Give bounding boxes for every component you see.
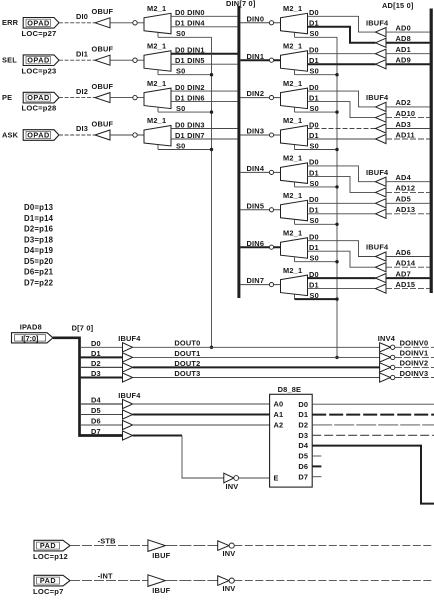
label S0 mux R3 xyxy=(310,141,319,150)
wire D4 to A0 xyxy=(133,403,270,405)
buffer OBUF ERR xyxy=(95,18,110,28)
wire AD0 to AD bus xyxy=(386,31,430,33)
svg-text:LOC=p27: LOC=p27 xyxy=(22,29,57,38)
svg-text:DI1: DI1 xyxy=(76,49,88,58)
net label AD11 xyxy=(396,130,415,139)
svg-text:M2_1: M2_1 xyxy=(283,154,302,163)
wire D4 bus to IBUF xyxy=(80,403,123,405)
buffer IBUF -INT xyxy=(148,575,166,587)
label M2_1 mux L1 xyxy=(147,41,166,50)
wire mux R5 D1 to IBUF xyxy=(308,213,376,215)
wire D6 to A2 xyxy=(133,424,270,426)
pin label D5 decoder xyxy=(298,452,308,461)
svg-text:DOINV2: DOINV2 xyxy=(400,359,429,368)
svg-text:D1: D1 xyxy=(309,206,319,215)
label D1 DIN7 xyxy=(175,131,205,140)
buffer IBUF AD9 xyxy=(376,60,387,69)
tag circle DIN2 xyxy=(269,96,273,100)
svg-text:-INT: -INT xyxy=(98,572,113,581)
net label DOINV0 xyxy=(400,339,429,348)
label D1 mux R6 xyxy=(309,243,319,252)
svg-text:IBUF4: IBUF4 xyxy=(366,18,389,27)
svg-text:D4: D4 xyxy=(91,396,102,405)
label D0 mux R2 xyxy=(309,83,319,92)
svg-text:D0 DIN2: D0 DIN2 xyxy=(175,83,205,92)
wire SEL pad to OBUF xyxy=(59,59,95,61)
net label DIN7 xyxy=(247,276,265,285)
svg-text:M2_1: M2_1 xyxy=(147,4,166,13)
svg-text:DIN4: DIN4 xyxy=(247,164,265,173)
buffer IBUF AD2 xyxy=(376,102,387,111)
wire mux R7 D1 to IBUF xyxy=(308,288,376,290)
net label DOUT3 xyxy=(174,369,200,378)
tag circle DIN3 xyxy=(269,133,273,137)
wire AD5 to AD bus xyxy=(386,202,430,204)
svg-text:D1=p14: D1=p14 xyxy=(24,214,54,223)
junction select right row 1 xyxy=(335,73,338,76)
junction select right row 3 xyxy=(335,148,338,151)
label OBUF ERR xyxy=(92,7,114,16)
svg-text:D0 DIN0: D0 DIN0 xyxy=(175,8,205,17)
wire D1 DIN7 to DIN bus xyxy=(171,138,238,140)
label S0 mux R2 xyxy=(310,104,319,113)
wire IBUF to INV -INT xyxy=(165,580,217,582)
junction select left on DOUT0 xyxy=(210,346,213,349)
wire AD8 to AD bus xyxy=(386,42,430,44)
label S0 mux L3 xyxy=(176,141,185,150)
bus DIN[7:0] vertical xyxy=(237,6,240,298)
wire AD11 to AD bus xyxy=(386,138,430,140)
svg-text:ERR: ERR xyxy=(2,18,19,27)
label OBUF PE xyxy=(92,82,114,91)
wire DIN3 bus to mux xyxy=(240,134,280,136)
svg-text:D6: D6 xyxy=(91,417,101,426)
svg-text:AD2: AD2 xyxy=(396,98,411,107)
wire D7 to INV xyxy=(133,435,182,437)
wire decoder D7 stub xyxy=(312,476,321,478)
buffer IBUF D3 xyxy=(123,373,133,382)
wire AD3 to AD bus xyxy=(386,128,430,130)
svg-text:D7: D7 xyxy=(91,427,101,436)
mux M2_1 R6 xyxy=(281,238,308,259)
wire OBUF to mux SEL xyxy=(110,59,144,61)
wire AD9 to AD bus xyxy=(386,63,430,65)
net label DI2 xyxy=(76,87,88,96)
svg-text:OPAD: OPAD xyxy=(27,18,50,27)
label M2_1 mux R7 xyxy=(283,266,302,275)
svg-text:SEL: SEL xyxy=(2,56,17,65)
label INV -INT xyxy=(223,584,236,593)
svg-text:DOINV1: DOINV1 xyxy=(400,349,429,358)
wire S0 mux L0 xyxy=(158,36,212,38)
label IBUF4 group 2 xyxy=(366,93,389,102)
wire S0 mux R1 xyxy=(295,74,338,76)
net label AD12 xyxy=(396,184,416,193)
pad IPAD8 I[7:0] xyxy=(12,333,54,343)
label D1 mux R0 xyxy=(309,19,319,28)
wire mux R4 D0 to IBUF xyxy=(308,166,376,182)
wire mux R2 D1 to IBUF xyxy=(308,102,376,118)
wire D7 down to INV input xyxy=(182,436,224,479)
label D0 DIN2 xyxy=(175,83,205,92)
wire S0 stub mux L3 xyxy=(157,145,159,150)
wire decoder D6 stub xyxy=(312,465,321,467)
svg-text:D0: D0 xyxy=(309,46,319,55)
svg-text:D1: D1 xyxy=(298,410,308,419)
svg-text:D0: D0 xyxy=(91,339,101,348)
buffer IBUF D4 xyxy=(123,399,133,408)
svg-text:DIN[7 0]: DIN[7 0] xyxy=(226,0,256,8)
wire mux R0 D1 to IBUF xyxy=(308,27,376,43)
wire S0 stub mux L1 xyxy=(157,70,159,75)
svg-text:IBUF: IBUF xyxy=(152,551,170,560)
net label D5 xyxy=(91,406,101,415)
wire S0 mux R5 xyxy=(295,223,338,225)
wire DOINV0 output xyxy=(395,346,434,348)
tag circle ASK xyxy=(133,133,137,137)
wire mux R7 D0 to IBUF xyxy=(308,277,376,279)
svg-text:AD9: AD9 xyxy=(396,56,411,65)
svg-text:M2_1: M2_1 xyxy=(147,116,166,125)
svg-text:D7=p22: D7=p22 xyxy=(24,278,54,287)
wire select chain right vertical xyxy=(336,37,338,357)
svg-text:M2_1: M2_1 xyxy=(283,191,302,200)
mux M2_1 R2 xyxy=(281,88,308,109)
net label D0 xyxy=(91,339,101,348)
mux M2_1 R1 xyxy=(281,51,308,71)
pad OPAD SEL xyxy=(23,55,59,66)
net label D7 xyxy=(91,427,101,436)
svg-text:AD[15 0]: AD[15 0] xyxy=(382,1,414,10)
wire DOINV2 output xyxy=(395,366,434,368)
svg-text:DOINV3: DOINV3 xyxy=(400,369,429,378)
tag circle DIN6 xyxy=(269,245,273,249)
svg-text:DIN2: DIN2 xyxy=(247,89,265,98)
svg-text:LOC=p7: LOC=p7 xyxy=(33,587,64,596)
label D[7:0] xyxy=(72,324,94,333)
net label DOUT2 xyxy=(174,359,200,368)
wire S0 stub mux R2 xyxy=(294,108,296,113)
junction select left row 1 xyxy=(210,73,213,76)
buffer IBUF AD12 xyxy=(376,188,387,197)
net label DI0 xyxy=(76,12,88,21)
net label D6 xyxy=(91,417,101,426)
svg-text:M2_1: M2_1 xyxy=(283,4,302,13)
net label DIN0 xyxy=(247,14,265,23)
svg-text:M2_1: M2_1 xyxy=(147,79,166,88)
mux M2_1 L1 xyxy=(144,51,171,71)
label D3=p18 xyxy=(24,235,54,244)
net label DIN5 xyxy=(247,201,265,210)
buffer IBUF D5 xyxy=(123,410,133,419)
label S0 mux L1 xyxy=(176,67,185,76)
wire D0 DIN3 to DIN bus xyxy=(171,128,238,130)
wire D1 DIN6 to DIN bus xyxy=(171,101,238,103)
wire D5 bus to IBUF xyxy=(80,414,123,416)
wire DOUT2 xyxy=(133,366,380,368)
wire S0 mux R2 xyxy=(295,111,338,113)
pin label D6 decoder xyxy=(298,462,308,471)
label INV4 xyxy=(378,334,396,343)
label S0 mux R1 xyxy=(310,67,319,76)
junction select left row 3 xyxy=(210,148,213,151)
svg-text:INV: INV xyxy=(223,549,236,558)
svg-text:AD10: AD10 xyxy=(396,109,416,118)
wire decoder D3 output xyxy=(312,434,434,436)
wire DIN2 bus to mux xyxy=(240,97,280,99)
svg-text:D3: D3 xyxy=(298,431,308,440)
svg-text:D0: D0 xyxy=(309,120,319,129)
svg-text:OPAD: OPAD xyxy=(27,56,50,65)
label D1=p14 xyxy=(24,214,54,223)
wire S0 stub mux L0 xyxy=(157,33,159,38)
wire S0 mux L2 xyxy=(158,111,212,113)
label LOC=p12 xyxy=(33,552,68,561)
pin label A0 xyxy=(274,400,284,409)
buffer IBUF AD3 xyxy=(376,124,387,133)
wire DIN5 bus to mux xyxy=(240,209,280,211)
label D1 mux R2 xyxy=(309,94,319,103)
net label AD13 xyxy=(396,205,416,214)
wire -INT pad to IBUF xyxy=(70,580,148,582)
svg-text:AD4: AD4 xyxy=(396,173,412,182)
junction select right row 2 xyxy=(335,110,338,113)
buffer IBUF AD8 xyxy=(376,38,387,47)
buffer IBUF AD4 xyxy=(376,177,387,186)
net label DIN2 xyxy=(247,89,265,98)
svg-text:A0: A0 xyxy=(274,400,284,409)
wire DOUT3 xyxy=(133,377,380,379)
wire DIN4 bus to mux xyxy=(240,171,280,173)
label M2_1 mux R5 xyxy=(283,191,302,200)
svg-text:D5: D5 xyxy=(91,406,101,415)
svg-text:DIN7: DIN7 xyxy=(247,276,265,285)
wire mux R1 D0 to IBUF xyxy=(308,53,376,55)
svg-text:D0=p13: D0=p13 xyxy=(24,203,54,212)
net label AD15 xyxy=(396,280,416,289)
wire DOUT0 xyxy=(133,346,380,348)
net label AD10 xyxy=(396,109,416,118)
buffer IBUF D2 xyxy=(123,363,133,372)
svg-text:D1: D1 xyxy=(309,131,319,140)
svg-text:D0: D0 xyxy=(309,83,319,92)
label D2=p16 xyxy=(24,225,54,234)
mux M2_1 R5 xyxy=(281,200,308,221)
wire DOINV3 output xyxy=(395,377,434,379)
inverter INV DOINV0 xyxy=(380,343,395,352)
svg-text:DOUT1: DOUT1 xyxy=(174,349,200,358)
buffer IBUF AD10 xyxy=(376,113,387,122)
pin label D4 decoder xyxy=(298,441,309,450)
label S0 mux R0 xyxy=(310,29,319,38)
tag circle DIN7 xyxy=(269,283,273,287)
svg-text:S0: S0 xyxy=(310,141,319,150)
buffer IBUF AD7 xyxy=(376,274,387,283)
buffer IBUF D7 xyxy=(123,431,133,440)
svg-text:AD12: AD12 xyxy=(396,184,416,193)
wire DIN0 bus to mux xyxy=(240,22,280,24)
pin label D2 decoder xyxy=(298,421,308,430)
wire PE pad to OBUF xyxy=(59,97,95,99)
label M2_1 mux R6 xyxy=(283,228,302,237)
svg-text:I[7:0]: I[7:0] xyxy=(21,334,38,343)
net label DIN4 xyxy=(247,164,265,173)
svg-text:DOUT2: DOUT2 xyxy=(174,359,200,368)
svg-text:DOUT0: DOUT0 xyxy=(174,339,200,348)
svg-text:AD6: AD6 xyxy=(396,248,411,257)
wire select chain left vertical xyxy=(211,37,213,347)
label M2_1 mux R0 xyxy=(283,4,302,13)
label S0 mux L0 xyxy=(176,29,185,38)
junction select left row 2 xyxy=(210,110,213,113)
pin label E xyxy=(274,474,279,483)
svg-text:PE: PE xyxy=(2,93,12,102)
inverter INV -INT xyxy=(218,576,235,586)
label S0 mux L2 xyxy=(176,104,185,113)
svg-text:OPAD: OPAD xyxy=(27,93,50,102)
net label AD4 xyxy=(396,173,412,182)
label D0 DIN1 xyxy=(175,46,205,55)
pin label D1 decoder xyxy=(298,410,308,419)
junction select right on DOUT1 xyxy=(335,356,338,359)
net label AD14 xyxy=(396,259,416,268)
wire AD12 to AD bus xyxy=(386,191,430,193)
net label DOINV2 xyxy=(400,359,429,368)
net label AD2 xyxy=(396,98,411,107)
svg-text:DIN3: DIN3 xyxy=(247,127,265,136)
label D0 DIN0 xyxy=(175,8,205,17)
svg-text:D1: D1 xyxy=(91,349,101,358)
svg-text:LOC=p12: LOC=p12 xyxy=(33,552,68,561)
junction select right row 4 xyxy=(335,185,338,188)
svg-text:D3=p18: D3=p18 xyxy=(24,235,54,244)
wire D0 DIN1 to DIN bus xyxy=(171,53,238,55)
label S0 mux R6 xyxy=(310,254,319,263)
wire ERR pad to OBUF xyxy=(59,22,95,24)
wire S0 mux R6 xyxy=(295,261,338,263)
wire S0 mux R3 xyxy=(295,149,338,151)
inverter INV -STB xyxy=(218,541,235,551)
wire decoder D5 stub xyxy=(312,455,321,457)
buffer IBUF AD14 xyxy=(376,263,387,272)
wire -INT output xyxy=(234,580,433,582)
label M2_1 mux L2 xyxy=(147,79,166,88)
label IBUF4 group A xyxy=(118,334,141,343)
wire OBUF to mux ERR xyxy=(110,22,144,24)
svg-text:M2_1: M2_1 xyxy=(283,228,302,237)
net label -INT xyxy=(98,572,113,581)
junction select right row 7 xyxy=(335,297,338,300)
label D1 mux R4 xyxy=(309,168,319,177)
svg-text:IBUF4: IBUF4 xyxy=(366,243,389,252)
svg-text:DI3: DI3 xyxy=(76,124,88,133)
svg-text:INV: INV xyxy=(226,482,239,491)
net label DI3 xyxy=(76,124,88,133)
net label AD7 xyxy=(396,269,411,278)
wire decoder D1 output xyxy=(312,414,434,416)
buffer IBUF AD11 xyxy=(376,134,387,143)
net label DOINV1 xyxy=(400,349,429,358)
label IBUF4 group 3 xyxy=(366,168,389,177)
buffer IBUF AD15 xyxy=(376,284,387,293)
net label D2 xyxy=(91,359,101,368)
label D1 mux R3 xyxy=(309,131,319,140)
wire DIN6 bus to mux xyxy=(240,246,280,248)
svg-text:DOINV0: DOINV0 xyxy=(400,339,429,348)
wire D5 to A1 xyxy=(133,414,270,416)
wire AD13 to AD bus xyxy=(386,213,430,215)
wire mux R0 D0 to IBUF xyxy=(308,16,376,32)
label LOC=p27 xyxy=(22,29,57,38)
label LOC=p23 xyxy=(22,66,57,75)
svg-text:A2: A2 xyxy=(274,420,284,429)
label S0 mux R4 xyxy=(310,179,319,188)
wire D2 bus to IBUF xyxy=(80,366,123,368)
wire S0 mux R7 xyxy=(295,298,338,300)
svg-text:D0: D0 xyxy=(298,400,308,409)
buffer IBUF D1 xyxy=(123,353,133,362)
wire decoder D0 output xyxy=(312,403,434,405)
wire mux R6 D0 to IBUF xyxy=(308,241,376,257)
svg-text:D0: D0 xyxy=(309,8,319,17)
wire S0 stub mux R7 xyxy=(294,295,296,300)
block D8_8E xyxy=(270,394,313,487)
svg-text:DI0: DI0 xyxy=(76,12,88,21)
svg-text:M2_1: M2_1 xyxy=(283,79,302,88)
svg-text:D5=p20: D5=p20 xyxy=(24,257,54,266)
net label AD8 xyxy=(396,34,411,43)
wire S0 stub mux R4 xyxy=(294,182,296,187)
wire AD7 to AD bus xyxy=(386,277,430,279)
wire S0 stub mux R3 xyxy=(294,145,296,150)
label D0 mux R6 xyxy=(309,233,319,242)
wire mux R3 D1 to IBUF xyxy=(308,138,376,140)
pad PAD -INT xyxy=(34,575,70,586)
label D0 mux R5 xyxy=(309,195,319,204)
bus D[7:0] from IPAD8 xyxy=(53,338,123,436)
net label AD5 xyxy=(396,195,411,204)
tag circle PE xyxy=(133,95,137,99)
svg-text:D2: D2 xyxy=(298,421,308,430)
wire S0 stub mux R0 xyxy=(294,33,296,38)
label IBUF4 group 1 xyxy=(366,18,389,27)
svg-text:AD14: AD14 xyxy=(396,259,416,268)
wire mux R1 D1 to IBUF xyxy=(308,63,376,65)
net label AD9 xyxy=(396,56,411,65)
label D0 mux R7 xyxy=(309,270,319,279)
buffer IBUF AD13 xyxy=(376,209,387,218)
net label AD0 xyxy=(396,23,411,32)
svg-text:AD11: AD11 xyxy=(396,130,415,139)
buffer IBUF AD6 xyxy=(376,252,387,261)
svg-text:A1: A1 xyxy=(274,410,284,419)
label M2_1 mux L3 xyxy=(147,116,166,125)
svg-text:LOC=p23: LOC=p23 xyxy=(22,66,57,75)
label D0=p13 xyxy=(24,203,54,212)
svg-text:AD13: AD13 xyxy=(396,205,416,214)
label M2_1 mux R2 xyxy=(283,79,302,88)
label OBUF SEL xyxy=(92,45,114,54)
svg-text:D4=p19: D4=p19 xyxy=(24,246,54,255)
svg-text:AD0: AD0 xyxy=(396,23,411,32)
label M2_1 mux L0 xyxy=(147,4,166,13)
svg-text:IBUF: IBUF xyxy=(152,586,170,595)
net label SEL xyxy=(2,56,17,65)
svg-text:D5: D5 xyxy=(298,452,308,461)
label D6=p21 xyxy=(24,268,54,277)
svg-text:AD8: AD8 xyxy=(396,34,411,43)
label D1 DIN6 xyxy=(175,94,205,103)
